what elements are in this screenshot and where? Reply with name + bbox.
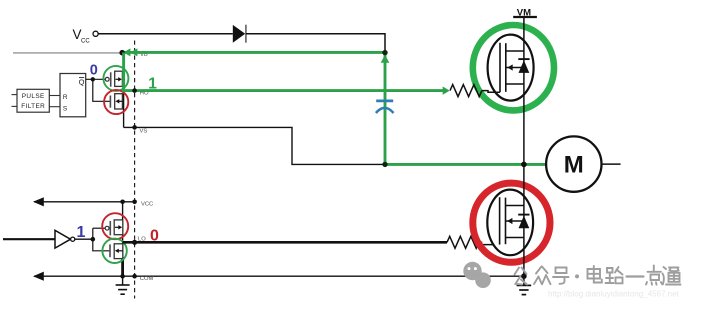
node VCC junction <box>120 200 125 205</box>
node VS pin <box>132 125 137 130</box>
wire VM rail through Q3 to phase <box>523 17 525 164</box>
node LO pin <box>132 240 137 245</box>
wire VB highlighted (green) <box>122 51 385 54</box>
current arrow on VB wire <box>123 48 130 56</box>
motor M <box>546 136 601 191</box>
node bootstrap bottom <box>382 162 387 167</box>
driver PMOS Q1 (high-side pull-up) <box>105 77 109 81</box>
wire driver output column (low section) <box>122 202 124 259</box>
node HO pin <box>132 88 137 93</box>
svg-text:S: S <box>63 106 68 113</box>
svg-text:PULSE: PULSE <box>22 93 45 100</box>
wire COM rail <box>34 275 524 277</box>
wire pulse filter to S <box>49 106 60 108</box>
current arrow on HO wire <box>443 87 450 95</box>
current arrow VCC rail <box>33 197 44 206</box>
svg-text:COM: COM <box>140 276 154 282</box>
svg-text:VS: VS <box>140 129 148 135</box>
node COM / ground junction <box>521 273 527 279</box>
input wire to inverter <box>3 238 55 240</box>
wire Q output to driver gates <box>86 78 106 80</box>
highlight circle green (Q6 on) <box>102 239 126 263</box>
driver PMOS Q5 (low-side pull-up) <box>105 226 109 230</box>
wire NMOS source to COM (thick) <box>121 257 124 276</box>
svg-text:http://blog.dianluyidiantong_4: http://blog.dianluyidiantong_4567.net <box>548 290 680 299</box>
bootstrap diode D1 <box>233 25 245 43</box>
wire HO highlighted (green) <box>124 52 444 90</box>
pulse filter block <box>17 89 49 112</box>
wire phase through Q4 to ground <box>523 164 525 285</box>
svg-text:0: 0 <box>90 62 98 78</box>
node bootstrap top <box>382 50 387 55</box>
power MOSFET Q3 high-side <box>488 35 534 101</box>
node VCC pin <box>132 200 137 205</box>
wire bootstrap vertical (green) <box>384 52 387 164</box>
svg-text:0: 0 <box>150 228 159 245</box>
watermark text (drawn glyphs) <box>515 266 681 285</box>
wire phase highlighted (green) <box>385 163 546 166</box>
current arrow COM rail <box>33 272 44 281</box>
current arrow on bootstrap wire <box>381 55 390 63</box>
node VB junction <box>119 50 125 56</box>
highlight ring green (high-side FET on) <box>473 25 554 110</box>
wire LO (thick) <box>123 241 447 244</box>
body diode Q4 <box>518 214 529 216</box>
highlight ring red (low-side FET off) <box>473 183 550 262</box>
svg-text:VCC: VCC <box>141 202 153 208</box>
highlight circle red (Q2 off) <box>104 90 128 114</box>
IC boundary dashed line <box>134 41 136 299</box>
wire R2 to Q4 gate <box>479 242 500 244</box>
wire diode to VB node <box>246 34 385 53</box>
wire VS to phase node <box>124 127 385 164</box>
node phase / motor junction <box>521 162 527 168</box>
watermark logo <box>463 262 491 288</box>
ground (driver COM) <box>122 276 124 285</box>
wire R1 to Q3 gate <box>482 91 500 93</box>
svg-text:R: R <box>63 94 68 101</box>
RS latch U2 <box>60 74 86 117</box>
input stubs pulse filter <box>12 94 18 96</box>
wire pulse filter to R <box>49 95 60 97</box>
node COM pin <box>132 274 137 279</box>
node COM junction <box>120 274 125 279</box>
power MOSFET Q4 low-side <box>487 190 533 256</box>
svg-text:M: M <box>564 152 584 179</box>
watermark middle dot <box>575 274 579 278</box>
node inverter output <box>91 237 96 242</box>
svg-text:FILTER: FILTER <box>21 103 45 110</box>
highlight circle green (Q1 on) <box>103 66 128 91</box>
driver NMOS Q2 (high-side pull-down) <box>109 96 111 108</box>
inverter U3 <box>55 230 71 248</box>
wire driver output column (top section) <box>123 52 125 127</box>
gate resistor R2 (low side) <box>447 236 479 248</box>
svg-text:1: 1 <box>148 75 157 92</box>
wire Vcc to diode D1 <box>98 33 233 35</box>
highlight circle red (Q5 off) <box>102 213 128 239</box>
driver NMOS Q6 (low-side pull-down) <box>109 244 111 257</box>
wire VB internal (gray) <box>13 52 122 54</box>
ground (power) <box>517 284 532 286</box>
body diode Q3 <box>518 58 529 60</box>
bootstrap capacitor C1 <box>376 100 393 103</box>
node latch output <box>91 77 95 81</box>
svg-text:CC: CC <box>81 39 90 45</box>
wire motor to other half bridge <box>602 163 621 165</box>
gate resistor R1 (high side) <box>450 85 482 97</box>
wire inverter to driver gates <box>75 238 93 240</box>
svg-text:1: 1 <box>77 224 86 241</box>
svg-text:Q: Q <box>79 77 85 86</box>
wire VCC rail (low side) <box>34 201 135 203</box>
